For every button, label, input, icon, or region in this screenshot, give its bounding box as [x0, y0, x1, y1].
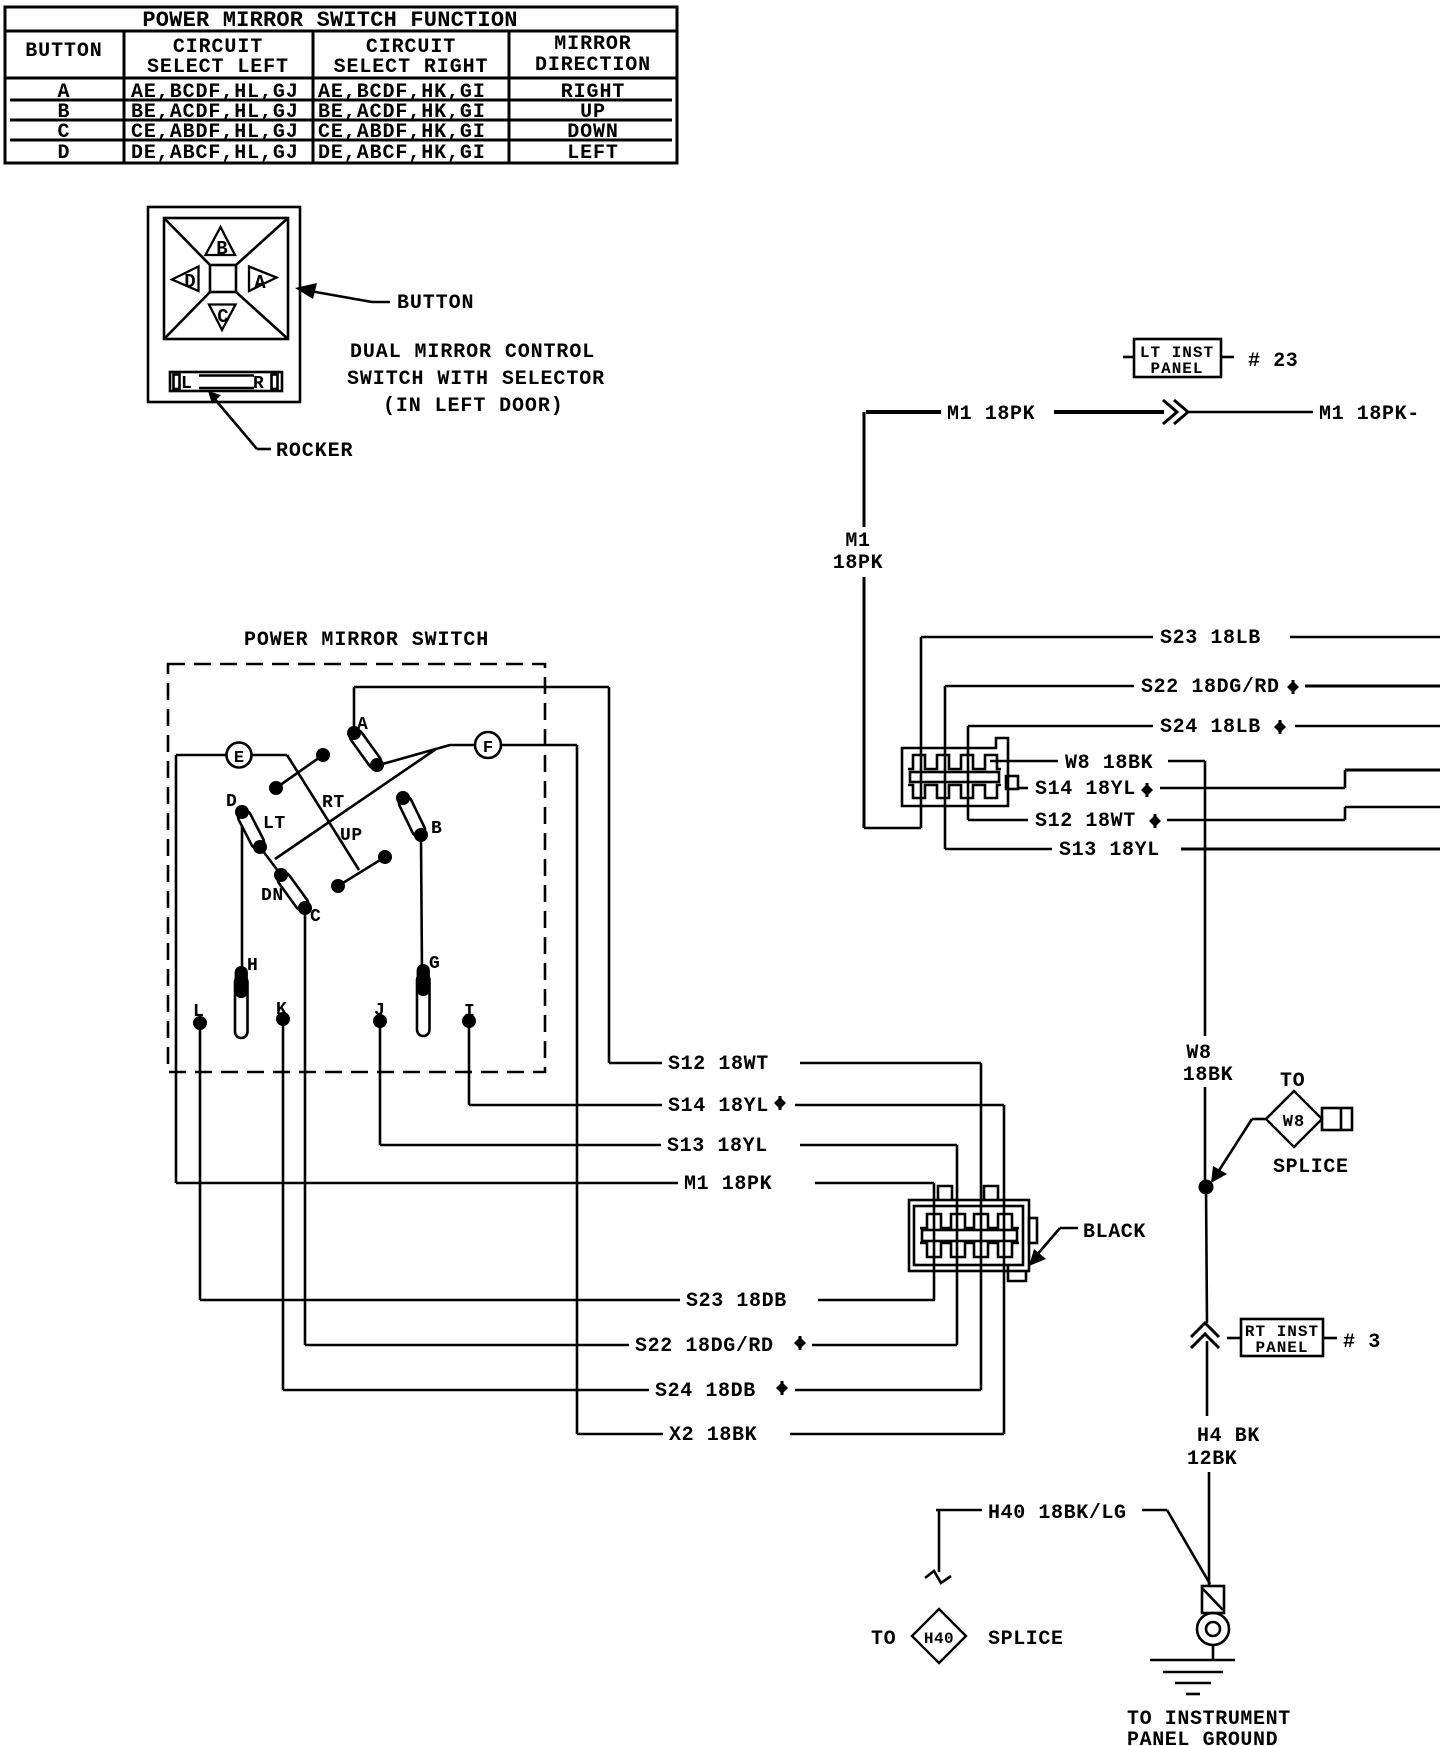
svg-text:SELECT LEFT: SELECT LEFT [147, 56, 289, 79]
svg-text:POWER MIRROR SWITCH FUNCTION: POWER MIRROR SWITCH FUNCTION [142, 8, 517, 33]
svg-text:B: B [431, 819, 442, 839]
svg-text:SELECT RIGHT: SELECT RIGHT [334, 56, 489, 79]
svg-text:S23 18DB: S23 18DB [686, 1290, 787, 1313]
svg-text:S13 18YL: S13 18YL [1059, 839, 1160, 862]
svg-text:S24 18LB: S24 18LB [1160, 716, 1261, 739]
svg-text:L: L [193, 1002, 204, 1022]
svg-text:J: J [374, 1001, 385, 1021]
svg-text:TO: TO [871, 1628, 896, 1651]
svg-text:DE,ABCF,HL,GJ: DE,ABCF,HL,GJ [131, 142, 299, 165]
svg-text:W8: W8 [1283, 1113, 1305, 1132]
svg-text:BLACK: BLACK [1083, 1221, 1146, 1244]
svg-text:A: A [254, 272, 266, 294]
svg-text:H: H [247, 956, 258, 976]
svg-text:X2 18BK: X2 18BK [669, 1424, 757, 1447]
svg-text:D: D [184, 271, 195, 293]
svg-text:SPLICE: SPLICE [1273, 1156, 1349, 1179]
svg-text:A: A [357, 715, 368, 735]
svg-text:PANEL: PANEL [1150, 360, 1203, 378]
svg-text:S22 18DG/RD: S22 18DG/RD [1141, 676, 1280, 699]
svg-text:L: L [181, 374, 192, 394]
svg-text:SWITCH WITH SELECTOR: SWITCH WITH SELECTOR [347, 368, 605, 391]
svg-text:S13 18YL: S13 18YL [667, 1135, 768, 1158]
svg-text:LEFT: LEFT [567, 142, 619, 165]
svg-text:B: B [216, 238, 227, 260]
svg-text:SPLICE: SPLICE [988, 1628, 1064, 1651]
svg-text:S12 18WT: S12 18WT [1035, 810, 1136, 833]
svg-text:UP: UP [340, 826, 363, 846]
svg-text:S12 18WT: S12 18WT [668, 1053, 769, 1076]
svg-text:S14 18YL: S14 18YL [1035, 778, 1136, 801]
svg-text:W8 18BK: W8 18BK [1065, 752, 1153, 775]
svg-text:S14 18YL: S14 18YL [668, 1095, 769, 1118]
svg-text:W8: W8 [1186, 1042, 1211, 1065]
svg-text:I: I [464, 1002, 475, 1022]
svg-text:DN: DN [261, 886, 284, 906]
svg-text:CE,ABDF,HL,GJ: CE,ABDF,HL,GJ [131, 121, 299, 144]
svg-text:TO INSTRUMENT: TO INSTRUMENT [1127, 1708, 1291, 1731]
svg-text:RT: RT [322, 793, 345, 813]
svg-text:ROCKER: ROCKER [276, 440, 353, 463]
svg-text:POWER MIRROR SWITCH: POWER MIRROR SWITCH [244, 629, 489, 652]
svg-text:TO: TO [1280, 1070, 1305, 1093]
svg-text:M1 18PK: M1 18PK [947, 403, 1035, 426]
svg-text:MIRROR: MIRROR [554, 33, 631, 56]
svg-text:DE,ABCF,HK,GI: DE,ABCF,HK,GI [318, 142, 486, 165]
svg-text:C: C [58, 121, 71, 144]
svg-text:M1 18PK-: M1 18PK- [1319, 403, 1420, 426]
svg-text:S23 18LB: S23 18LB [1160, 627, 1261, 650]
svg-text:F: F [483, 739, 493, 758]
svg-text:R: R [253, 374, 264, 394]
svg-text:S24 18DB: S24 18DB [655, 1380, 756, 1403]
svg-text:M1 18PK: M1 18PK [684, 1173, 772, 1196]
svg-text:LT: LT [263, 814, 286, 834]
svg-text:H40: H40 [924, 1630, 954, 1648]
svg-text:K: K [276, 1000, 287, 1020]
svg-text:(IN LEFT DOOR): (IN LEFT DOOR) [383, 395, 564, 418]
svg-text:D: D [58, 142, 71, 165]
svg-text:18PK: 18PK [833, 552, 883, 575]
svg-text:BUTTON: BUTTON [25, 40, 102, 63]
svg-text:# 23: # 23 [1248, 350, 1298, 373]
svg-text:DUAL MIRROR CONTROL: DUAL MIRROR CONTROL [350, 341, 595, 364]
svg-text:C: C [310, 907, 321, 927]
svg-text:H4 BK: H4 BK [1197, 1425, 1260, 1448]
svg-text:E: E [234, 749, 244, 768]
svg-text:18BK: 18BK [1183, 1064, 1233, 1087]
svg-text:G: G [429, 954, 440, 974]
svg-text:DOWN: DOWN [567, 121, 619, 144]
svg-text:PANEL: PANEL [1255, 1339, 1308, 1357]
svg-text:H40 18BK/LG: H40 18BK/LG [988, 1502, 1127, 1525]
svg-text:PANEL GROUND: PANEL GROUND [1127, 1729, 1278, 1746]
svg-text:S22 18DG/RD: S22 18DG/RD [635, 1335, 774, 1358]
svg-text:C: C [217, 306, 228, 328]
svg-text:D: D [226, 792, 237, 812]
svg-text:# 3: # 3 [1343, 1331, 1381, 1354]
svg-text:M1: M1 [845, 530, 870, 553]
svg-text:BUTTON: BUTTON [397, 292, 474, 315]
svg-text:CE,ABDF,HK,GI: CE,ABDF,HK,GI [318, 121, 486, 144]
svg-text:DIRECTION: DIRECTION [535, 54, 651, 77]
svg-text:12BK: 12BK [1187, 1448, 1237, 1471]
